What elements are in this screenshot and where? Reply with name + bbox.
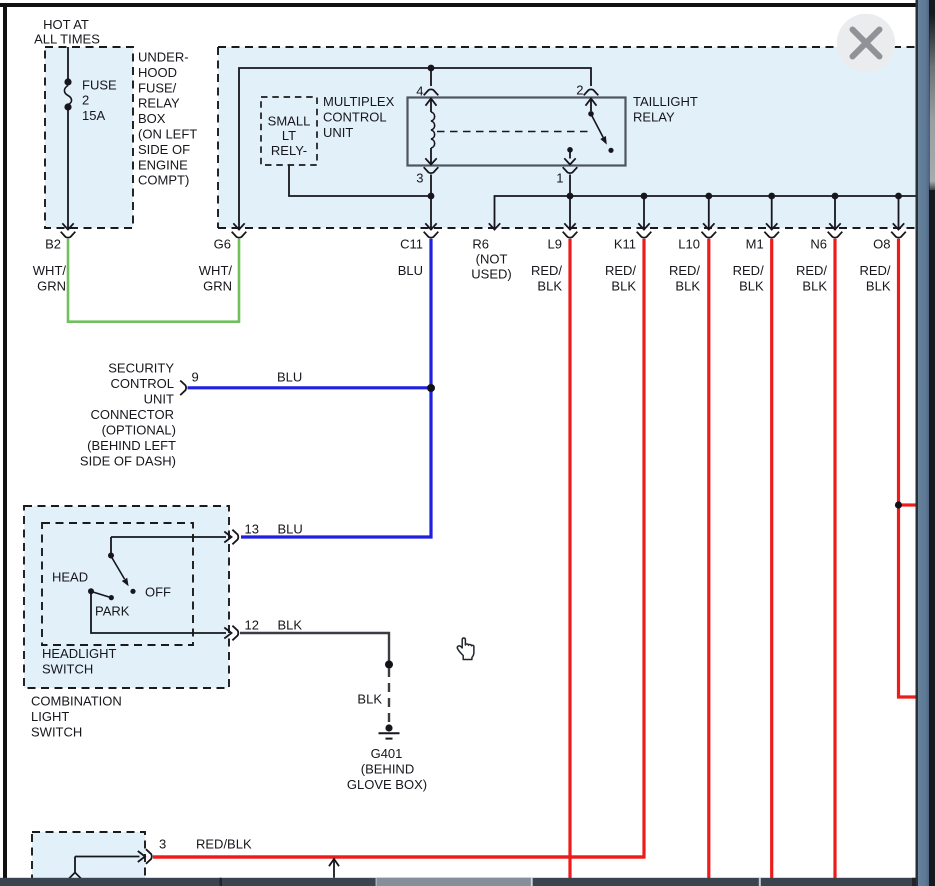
- multiplex control unit box (big blue dashed box): [218, 47, 916, 228]
- svg-text:B2: B2: [45, 236, 61, 251]
- svg-text:15A: 15A: [82, 108, 105, 123]
- pin 4 chevron and label: [416, 84, 438, 99]
- svg-text:RED/: RED/: [669, 263, 700, 278]
- pin 13 connector with arrow: [111, 522, 303, 545]
- pin 2 chevron and label: [576, 83, 598, 98]
- wire WHT/GRN from B2 to G6: [68, 239, 239, 322]
- svg-text:COMPT): COMPT): [138, 173, 189, 188]
- svg-text:LT: LT: [282, 128, 296, 143]
- dashed BLK drop to G401: [388, 668, 390, 724]
- svg-text:WHT/: WHT/: [199, 263, 233, 278]
- svg-text:RED/BLK: RED/BLK: [196, 837, 252, 852]
- svg-text:(NOT: (NOT: [476, 252, 508, 267]
- headlight switch internals: [52, 537, 171, 619]
- svg-text:BOX: BOX: [138, 111, 166, 126]
- svg-text:(OPTIONAL): (OPTIONAL): [102, 423, 176, 438]
- svg-text:RELAY: RELAY: [633, 109, 675, 124]
- svg-text:RED/: RED/: [796, 263, 827, 278]
- bus node L9: [567, 193, 574, 200]
- node at C11 bus: [428, 193, 435, 200]
- bus node N6: [832, 193, 839, 200]
- svg-text:UNIT: UNIT: [323, 125, 353, 140]
- wire RED/BLK bottom feed: [153, 855, 644, 858]
- svg-text:BLK: BLK: [611, 279, 636, 294]
- wire pin1 down to bus: [569, 175, 571, 197]
- svg-text:K11: K11: [614, 236, 636, 251]
- wire junction down to pin 4: [430, 68, 432, 86]
- svg-text:RELY-: RELY-: [271, 143, 307, 158]
- wire RED N6 full drop: [833, 239, 836, 878]
- svg-text:GRN: GRN: [37, 279, 66, 294]
- underhood fuse/relay box B2 (blue dashed box): [45, 47, 133, 228]
- svg-text:HEADLIGHT: HEADLIGHT: [42, 646, 116, 661]
- svg-text:USED): USED): [471, 267, 511, 282]
- headlight switch outer box (combination light switch, blue dashed): [24, 506, 229, 688]
- wire pin3 down to C11: [430, 175, 432, 229]
- wire small-lt-relay to C11 node: [289, 166, 428, 197]
- svg-text:BLK: BLK: [278, 618, 303, 633]
- wire RED K11 drop to bottom feed: [153, 239, 644, 857]
- svg-text:RELAY: RELAY: [138, 96, 180, 111]
- svg-text:3: 3: [416, 171, 423, 186]
- pin 3 chevron and label: [416, 167, 438, 185]
- label MULTIPLEX CONTROL UNIT: [323, 94, 395, 140]
- svg-text:RED/: RED/: [531, 263, 562, 278]
- svg-text:BLK: BLK: [802, 279, 827, 294]
- connector M1: [733, 232, 779, 294]
- bus node M1: [768, 193, 775, 200]
- svg-text:GLOVE BOX): GLOVE BOX): [347, 777, 427, 792]
- close button X: [837, 14, 895, 72]
- wire RED O8 drop with stubs: [895, 239, 916, 697]
- svg-text:MULTIPLEX: MULTIPLEX: [323, 94, 395, 109]
- svg-text:2: 2: [576, 83, 583, 98]
- svg-text:G6: G6: [214, 236, 231, 251]
- bottom-left connector box (blue dashed): [32, 832, 145, 886]
- ground G401 symbol: [347, 724, 427, 792]
- right scrollbar area: [916, 0, 935, 886]
- relay coil (pin4 to pin3): [425, 99, 436, 165]
- svg-text:(BEHIND LEFT: (BEHIND LEFT: [87, 438, 176, 453]
- svg-text:G401: G401: [371, 746, 403, 761]
- svg-text:CONNECTOR: CONNECTOR: [90, 407, 174, 422]
- wire BLU from C11 down to headlight switch pin 13: [241, 239, 431, 537]
- svg-text:HOOD: HOOD: [138, 65, 177, 80]
- svg-text:UNIT: UNIT: [144, 392, 174, 407]
- wire top feed: G6 column up, across to pin2: [233, 68, 591, 230]
- svg-text:C11: C11: [400, 236, 423, 251]
- wire B2 fuse output down to border arrow: [62, 110, 73, 230]
- svg-text:M1: M1: [746, 236, 764, 251]
- relay pin 1 contact: [564, 147, 575, 165]
- svg-text:SMALL: SMALL: [268, 114, 311, 129]
- connector O8: [859, 232, 905, 294]
- bus node O8: [895, 193, 902, 200]
- svg-text:PARK: PARK: [95, 604, 130, 619]
- taillight relay box: [408, 94, 698, 166]
- relay internal dashed link: [437, 131, 592, 133]
- svg-text:BLK: BLK: [675, 279, 700, 294]
- relay switch (pin2 to pin1): [586, 99, 614, 153]
- svg-text:N6: N6: [810, 236, 827, 251]
- svg-text:HEAD: HEAD: [52, 570, 88, 585]
- wire RED L10 full drop: [707, 239, 710, 878]
- wire PARK to pin 12: [91, 593, 226, 633]
- connector C11: [398, 232, 439, 278]
- svg-text:FUSE/: FUSE/: [138, 80, 177, 95]
- pin 1 chevron and label: [556, 167, 577, 185]
- svg-text:BLU: BLU: [398, 263, 423, 278]
- svg-text:BLK: BLK: [357, 692, 382, 707]
- svg-text:L10: L10: [678, 236, 700, 251]
- svg-text:HOT AT: HOT AT: [43, 17, 89, 32]
- svg-text:RED/: RED/: [605, 263, 636, 278]
- pin 12 connector with arrow: [224, 618, 302, 641]
- connector B2: [33, 232, 76, 294]
- label security control unit connector: [80, 361, 176, 469]
- connector L10: [669, 232, 716, 294]
- svg-text:BLK: BLK: [739, 279, 764, 294]
- svg-text:13: 13: [245, 522, 259, 537]
- connector K11: [605, 232, 651, 294]
- svg-text:3: 3: [159, 837, 166, 852]
- wire RED L9 full drop: [568, 239, 571, 878]
- wire RED M1 full drop: [770, 239, 773, 878]
- svg-text:WHT/: WHT/: [33, 263, 67, 278]
- svg-text:9: 9: [192, 370, 199, 385]
- labels headlight switch / combination light switch: [31, 646, 122, 740]
- frame left border: [3, 3, 7, 878]
- svg-text:O8: O8: [873, 236, 890, 251]
- svg-text:BLU: BLU: [277, 370, 302, 385]
- pin 9 bracket and label: [180, 370, 302, 396]
- connector L9: [531, 232, 577, 294]
- frame top border: [0, 3, 917, 7]
- svg-text:(ON LEFT: (ON LEFT: [138, 127, 197, 142]
- svg-text:4: 4: [416, 84, 423, 99]
- svg-text:1: 1: [556, 171, 563, 186]
- bus node L10: [705, 193, 712, 200]
- fuse F2 15A symbol: [64, 47, 117, 123]
- arrow up to bottom feed: [329, 859, 339, 878]
- svg-text:RED/: RED/: [733, 263, 764, 278]
- svg-text:BLK: BLK: [866, 279, 891, 294]
- svg-text:12: 12: [245, 618, 259, 633]
- svg-text:BLU: BLU: [278, 522, 303, 537]
- svg-text:SWITCH: SWITCH: [31, 725, 82, 740]
- label UNDER-HOOD FUSE/RELAY BOX: [138, 50, 197, 188]
- svg-text:2: 2: [82, 93, 89, 108]
- svg-text:UNDER-: UNDER-: [138, 50, 189, 65]
- svg-text:SWITCH: SWITCH: [42, 662, 93, 677]
- small lt relay dashed box: [261, 97, 317, 165]
- bottom taskbar: [0, 878, 916, 886]
- wire BLK from pin 12 to ground node: [240, 633, 389, 661]
- bottom-left box internals: wire to pin 3: [69, 837, 252, 886]
- svg-text:CONTROL: CONTROL: [323, 109, 387, 124]
- svg-text:SIDE OF: SIDE OF: [138, 142, 190, 157]
- svg-text:SECURITY: SECURITY: [108, 361, 174, 376]
- svg-text:ENGINE: ENGINE: [138, 157, 188, 172]
- svg-text:(BEHIND: (BEHIND: [361, 762, 414, 777]
- svg-text:CONTROL: CONTROL: [110, 376, 174, 391]
- svg-text:L9: L9: [548, 236, 562, 251]
- bus wire y196 from R6 to right edge: [495, 196, 917, 228]
- svg-text:R6: R6: [472, 236, 489, 251]
- junction node above pin 4: [428, 65, 435, 72]
- connector R6 (not used): [471, 236, 511, 281]
- svg-text:FUSE: FUSE: [82, 78, 117, 93]
- svg-text:BLK: BLK: [537, 279, 562, 294]
- connector G6: [199, 232, 247, 294]
- svg-text:LIGHT: LIGHT: [31, 709, 69, 724]
- svg-text:TAILLIGHT: TAILLIGHT: [633, 94, 698, 109]
- svg-text:SIDE OF DASH): SIDE OF DASH): [80, 454, 176, 469]
- label HOT AT ALL TIMES: [34, 17, 100, 47]
- mouse cursor: [457, 638, 474, 660]
- ground node: [385, 661, 393, 669]
- wire BLU from security unit pin 9: [188, 386, 432, 389]
- connector N6: [796, 232, 842, 294]
- svg-text:OFF: OFF: [145, 585, 171, 600]
- svg-text:RED/: RED/: [859, 263, 890, 278]
- svg-text:COMBINATION: COMBINATION: [31, 694, 122, 709]
- node blue junction: [427, 384, 435, 392]
- headlight switch inner dashed box: [42, 523, 193, 645]
- svg-text:ALL TIMES: ALL TIMES: [34, 32, 100, 47]
- bus node K11: [641, 193, 648, 200]
- svg-text:GRN: GRN: [203, 279, 232, 294]
